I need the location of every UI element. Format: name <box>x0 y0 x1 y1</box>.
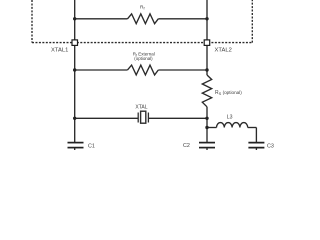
svg-text:L3: L3 <box>227 115 233 121</box>
svg-text:(optional): (optional) <box>134 56 153 61</box>
svg-text:C3: C3 <box>267 144 274 150</box>
IC boundary dashed right edge <box>251 0 253 43</box>
wire: crystal branch left segment <box>75 117 139 119</box>
wire: C1 bottom stub <box>74 148 76 151</box>
capacitor C2 plates <box>199 143 215 148</box>
wire: crystal branch right segment <box>148 117 207 119</box>
wire: Rt External wire right segment <box>158 69 207 71</box>
pin XTAL2 square <box>204 40 210 46</box>
crystal XTAL symbol <box>138 111 148 123</box>
resistor RS vertical zigzag <box>202 75 211 107</box>
svg-text:C1: C1 <box>88 144 95 150</box>
IC boundary dashed left edge <box>31 0 33 43</box>
resistor Rt External zigzag <box>128 65 159 75</box>
junction node at crystal left <box>73 117 76 120</box>
capacitor C3 plates <box>248 143 264 148</box>
IC boundary dashed bottom edge <box>32 42 252 44</box>
wire: L3 branch right stub <box>248 127 257 129</box>
junction node at L3 tap <box>205 126 208 129</box>
inductor L3 arcs <box>217 123 248 128</box>
svg-text:XTAL1: XTAL1 <box>51 47 68 53</box>
junction node at Rt left <box>73 68 76 71</box>
junction node at Rt right <box>205 68 208 71</box>
capacitor C1 plates <box>68 143 84 148</box>
junction node at crystal right <box>205 117 208 120</box>
svg-text:C2: C2 <box>183 143 190 149</box>
pin XTAL1 square <box>72 40 78 46</box>
wire: top feedback wire right segment <box>158 18 207 20</box>
wire: XTAL1 vertical from top to C1 <box>74 0 76 143</box>
svg-text:XTAL2: XTAL2 <box>215 47 232 53</box>
junction node at Rf right <box>205 17 208 20</box>
resistor Rf zigzag <box>128 14 159 24</box>
wire: C3 vertical <box>255 128 257 143</box>
wire: top feedback wire left segment <box>75 18 128 20</box>
wire: C2 bottom stub <box>206 148 208 151</box>
junction node at Rf left <box>73 17 76 20</box>
wire: L3 branch left stub <box>207 127 217 129</box>
wire: XTAL2 vertical top section <box>206 0 208 75</box>
wire: XTAL2 vertical lower section to C2 <box>206 107 208 143</box>
wire: C3 bottom stub <box>255 148 257 151</box>
wire: Rt External wire left segment <box>75 69 128 71</box>
svg-text:XTAL: XTAL <box>135 104 147 110</box>
